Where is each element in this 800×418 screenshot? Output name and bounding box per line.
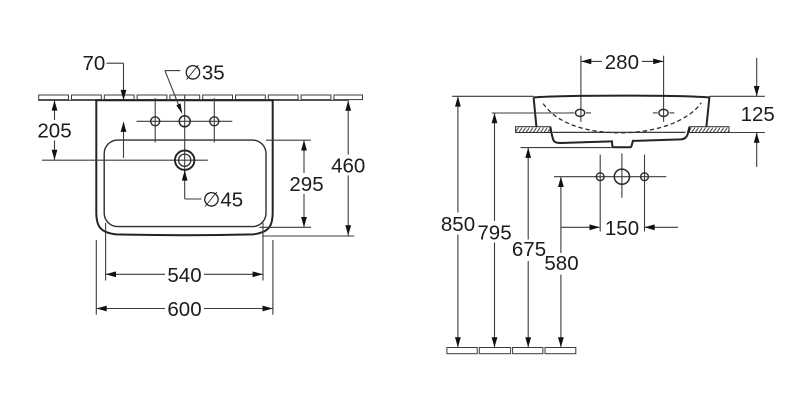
svg-text:∅35: ∅35 xyxy=(184,62,225,85)
dim 205 xyxy=(54,101,56,160)
tap hole small left (right view) xyxy=(596,173,604,181)
basin inner rim xyxy=(104,140,266,227)
tap hole small right (right view) xyxy=(641,173,649,181)
ref line 675 xyxy=(521,147,612,149)
fixing hole left xyxy=(576,109,585,116)
svg-text:850: 850 xyxy=(441,213,475,236)
tap centerline horizontal (580 ref) xyxy=(554,176,666,178)
dim 600 ext lines xyxy=(95,240,97,315)
svg-text:460: 460 xyxy=(331,155,365,178)
center vertical centerline xyxy=(184,95,186,175)
dim 850 xyxy=(457,97,459,347)
svg-text:125: 125 xyxy=(741,103,775,126)
dim 125 refs xyxy=(709,95,764,97)
drain inner circle xyxy=(179,154,191,166)
tap hole right xyxy=(210,117,219,126)
svg-text:280: 280 xyxy=(605,51,639,74)
svg-text:580: 580 xyxy=(544,252,578,275)
svg-text:540: 540 xyxy=(167,264,201,287)
dim 600 xyxy=(97,308,273,310)
bowl dashed profile xyxy=(543,103,701,133)
svg-text:295: 295 xyxy=(289,173,323,196)
dim 295 xyxy=(303,141,305,227)
bowl mid line xyxy=(553,131,686,133)
dim 125 xyxy=(756,58,758,167)
shelf hatch left xyxy=(516,127,551,133)
svg-text:600: 600 xyxy=(167,298,201,321)
svg-text:205: 205 xyxy=(37,120,71,143)
basin outer outline xyxy=(96,100,272,235)
floor hatch tiles xyxy=(447,348,576,354)
svg-text:795: 795 xyxy=(477,221,511,244)
fixing hole right xyxy=(659,109,668,116)
dim 460 bottom ref xyxy=(262,235,354,237)
dim 280 xyxy=(581,56,664,122)
tap hole left vertical centerline xyxy=(154,98,156,143)
svg-text:675: 675 xyxy=(512,238,546,261)
tap hole right vertical centerline xyxy=(213,98,215,143)
tap hole verticals xyxy=(599,155,601,232)
dim 540 ext lines xyxy=(105,223,107,281)
shelf hatch right xyxy=(690,127,729,133)
tap hole center (right view) xyxy=(614,169,629,184)
drain centerline horizontal xyxy=(42,159,208,161)
ref line 795 xyxy=(492,112,570,114)
wall hatch tiles (left view top) xyxy=(39,95,363,100)
bowl lower outline xyxy=(550,127,689,147)
dim 795 xyxy=(494,114,496,347)
svg-text:∅45: ∅45 xyxy=(203,189,244,212)
tap hole center xyxy=(179,116,190,127)
dim 580 xyxy=(560,177,562,347)
drain outer circle xyxy=(175,151,194,170)
svg-text:70: 70 xyxy=(82,52,105,75)
basin upper body xyxy=(534,96,710,127)
tap holes centerline horizontal xyxy=(137,120,233,122)
dim 150 xyxy=(561,226,678,228)
dim 675 xyxy=(527,148,529,347)
tap hole left xyxy=(151,117,160,126)
dim 540 xyxy=(106,273,263,275)
svg-text:150: 150 xyxy=(605,217,639,240)
dim 295 refs xyxy=(266,139,311,141)
wall line xyxy=(38,99,349,101)
ref line 850 xyxy=(452,95,534,97)
dim 460 xyxy=(347,101,349,236)
